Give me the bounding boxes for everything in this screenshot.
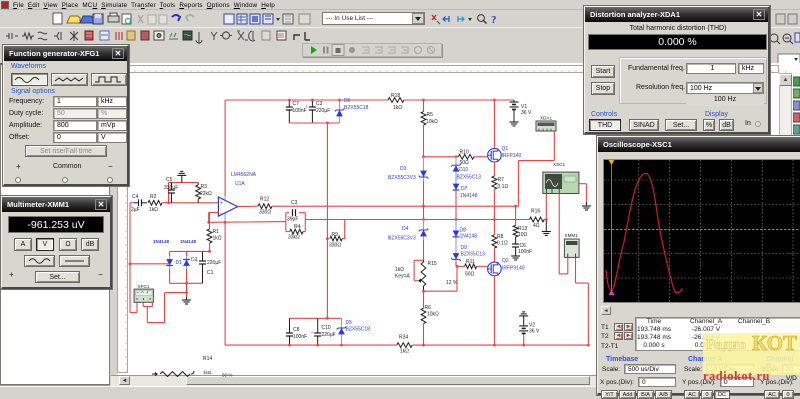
- svg-text:36 V: 36 V: [521, 110, 532, 116]
- svg-text:1kΩ: 1kΩ: [149, 207, 158, 213]
- svg-text:R10: R10: [460, 150, 469, 156]
- svg-text:C7: C7: [293, 101, 300, 107]
- svg-text:R6: R6: [425, 305, 432, 311]
- svg-text:+: +: [305, 104, 308, 109]
- resistor R4: [288, 224, 303, 241]
- svg-text:R15: R15: [428, 261, 437, 267]
- svg-text:U1A: U1A: [235, 181, 245, 187]
- battery V2: [519, 323, 540, 347]
- simulation toolbar: [302, 43, 442, 57]
- svg-text:100nF: 100nF: [518, 249, 532, 255]
- resistor R5: [421, 99, 438, 125]
- resistor R11: [457, 259, 488, 278]
- zener diode D10: [451, 155, 481, 180]
- svg-text:C10: C10: [322, 325, 331, 331]
- capacitor C6: [512, 237, 532, 255]
- svg-text:0.1Ω: 0.1Ω: [497, 241, 508, 247]
- wire R5 to gate line: [422, 125, 425, 158]
- svg-text:100nF: 100nF: [293, 334, 307, 340]
- svg-text:2µF: 2µF: [131, 207, 140, 213]
- svg-text:0.1Ω: 0.1Ω: [498, 184, 509, 190]
- wire op-amp V+ supply: [224, 100, 226, 196]
- svg-text:330Ω: 330Ω: [329, 243, 341, 249]
- wire D1/D2 box bottom rail: [170, 282, 203, 285]
- wire decoupling group bottom rail: [289, 122, 339, 125]
- svg-text:22kΩ: 22kΩ: [200, 191, 212, 197]
- wire D7 down to line B: [455, 191, 458, 221]
- svg-text:1kΩ: 1kΩ: [203, 370, 212, 375]
- svg-text:IRFP9140: IRFP9140: [502, 266, 525, 272]
- resistor R7: [492, 162, 508, 190]
- toolbar row 1: [0, 11, 800, 27]
- menu bar: [0, 0, 800, 10]
- wire op-amp output: [238, 205, 258, 207]
- svg-text:C8: C8: [293, 327, 300, 333]
- wire feedback box sides: [286, 213, 306, 232]
- capacitor C1: [196, 251, 222, 283]
- svg-text:D10: D10: [459, 167, 468, 173]
- zener diode D6: [335, 98, 369, 123]
- svg-text:1N4148: 1N4148: [153, 239, 170, 244]
- right vertical scrollbar: [779, 73, 792, 136]
- wire negative bottom rail: [225, 344, 397, 347]
- wire line A to distortion analyzer: [518, 131, 554, 206]
- svg-text:Q2: Q2: [502, 258, 509, 264]
- svg-text:C1: C1: [207, 270, 214, 276]
- svg-text:R12: R12: [260, 197, 269, 203]
- svg-text:LM4562NA: LM4562NA: [231, 172, 257, 178]
- svg-text:XSC1: XSC1: [553, 162, 565, 167]
- instrument XFG1: [134, 284, 153, 302]
- svg-text:C4: C4: [132, 194, 139, 200]
- svg-text:XMM1: XMM1: [565, 233, 579, 238]
- status bar: [0, 386, 800, 395]
- svg-text:33kΩ: 33kΩ: [288, 235, 300, 241]
- wire bottom rail right segment: [412, 344, 588, 346]
- wire oscilloscope probe B: [559, 194, 568, 274]
- Distortion analyzer XDA1 dialog: [584, 6, 770, 134]
- wire main vertical to output caps: [326, 239, 328, 319]
- wire left signal rail: [130, 203, 137, 313]
- svg-text:D9: D9: [461, 245, 468, 251]
- svg-text:330µF: 330µF: [164, 185, 178, 191]
- resistor R16: [530, 209, 545, 230]
- svg-text:R7: R7: [498, 177, 505, 183]
- design toolbox panel: [0, 63, 110, 385]
- svg-text:D6: D6: [344, 98, 351, 104]
- wire input node from generator rail: [130, 202, 134, 204]
- potentiometer R14: [152, 356, 232, 378]
- wire R13 branch from line A: [514, 205, 517, 226]
- svg-text:1N4148: 1N4148: [180, 239, 197, 244]
- instrument XDA1: [536, 116, 556, 132]
- resistor R34: [397, 335, 412, 355]
- svg-text:1kΩ: 1kΩ: [395, 267, 404, 273]
- wire R16 to ground: [544, 219, 546, 221]
- Oscilloscope XSC1 dialog: [597, 136, 800, 395]
- wire Q2 drain to bottom rail: [493, 276, 496, 347]
- top-right fragments: [768, 28, 800, 68]
- wire R9 up to line B: [342, 220, 345, 239]
- svg-text:R5: R5: [427, 112, 434, 118]
- ground at oscilloscope: [582, 202, 591, 210]
- svg-text:BZX55C18: BZX55C18: [346, 327, 371, 333]
- ground below C6: [511, 253, 520, 260]
- wire feedback line B: [209, 220, 530, 223]
- canvas white: [111, 63, 800, 376]
- left sheet border strip: [111, 63, 117, 376]
- resistor R8: [492, 220, 508, 249]
- wire top positive rail left segment: [225, 99, 388, 101]
- wire shunt top node: [169, 182, 199, 202]
- ground above V2: [519, 312, 528, 324]
- svg-text:10kΩ: 10kΩ: [426, 119, 438, 125]
- ground at limiter: [182, 283, 191, 304]
- radiokot watermark: [703, 333, 800, 375]
- svg-text:R18: R18: [391, 93, 400, 99]
- resistor R2: [148, 194, 162, 213]
- svg-text:R11: R11: [466, 259, 475, 265]
- resistor R13: [513, 225, 527, 238]
- wire multimeter to bottom rail: [576, 257, 590, 346]
- potentiometer R15: [395, 260, 458, 291]
- battery V1: [510, 100, 532, 118]
- capacitor C3 (supply decoupling): [305, 99, 330, 123]
- svg-text:XDA1: XDA1: [540, 116, 552, 121]
- svg-text:D1: D1: [176, 260, 183, 266]
- wire main vertical from decoupling group: [326, 123, 328, 239]
- svg-text:-: -: [220, 210, 222, 216]
- resistor R9: [326, 232, 342, 249]
- horizontal scrollbar: [111, 375, 800, 386]
- wire XFG1 common loop: [143, 302, 152, 306]
- svg-text:R8: R8: [497, 234, 504, 240]
- svg-text:50Ω: 50Ω: [465, 272, 475, 278]
- svg-text:220µF: 220µF: [322, 332, 336, 338]
- svg-text:1N4148: 1N4148: [460, 193, 478, 199]
- diode D1: [153, 239, 182, 283]
- svg-text:50Ω: 50Ω: [460, 160, 470, 166]
- svg-text:C5: C5: [166, 177, 173, 183]
- svg-text:10Ω: 10Ω: [518, 232, 528, 238]
- zener diode D4: [388, 220, 428, 261]
- svg-text:C3: C3: [291, 200, 298, 206]
- svg-text:D3: D3: [400, 166, 407, 172]
- wire minus input to feedback: [207, 212, 218, 223]
- svg-text:D4: D4: [402, 226, 409, 232]
- svg-text:36 V: 36 V: [529, 329, 540, 335]
- resistor R18: [388, 93, 404, 111]
- Function generator XFG1 dialog: [3, 45, 129, 186]
- capacitor C10: [311, 318, 336, 345]
- svg-text:R34: R34: [399, 335, 408, 341]
- svg-text:330Ω: 330Ω: [259, 210, 271, 216]
- svg-text:R4: R4: [294, 224, 301, 230]
- svg-text:BZX55C18: BZX55C18: [344, 105, 369, 111]
- wire top positive rail right segment: [404, 99, 514, 101]
- capacitor C3 39pF feedback: [286, 209, 306, 222]
- capacitor C7: [286, 99, 307, 123]
- svg-text:1kΩ: 1kΩ: [213, 236, 222, 242]
- svg-text:39pF: 39pF: [287, 217, 298, 223]
- resistor R3: [196, 182, 212, 202]
- zener diode D5: [337, 318, 370, 345]
- svg-text:10kΩ: 10kΩ: [427, 312, 439, 318]
- toolbar row 2: [0, 27, 800, 45]
- svg-text:12 %: 12 %: [446, 280, 458, 286]
- wire oscilloscope probe A: [545, 194, 548, 221]
- svg-text:R16: R16: [531, 209, 540, 215]
- instrument XMM1: [564, 233, 579, 258]
- svg-text:+: +: [220, 200, 223, 206]
- svg-text:C3: C3: [316, 101, 323, 107]
- top sheet border strip: [117, 65, 779, 73]
- instrument XSC1: [543, 162, 579, 194]
- svg-text:+: +: [311, 330, 314, 335]
- diode D8: [453, 220, 478, 240]
- resistor R12: [258, 197, 272, 216]
- svg-text:220µF: 220µF: [207, 260, 221, 266]
- svg-text:1kΩ: 1kΩ: [393, 105, 402, 111]
- ground below V1: [510, 118, 519, 126]
- svg-text:1kΩ: 1kΩ: [400, 349, 409, 355]
- ground at R16: [542, 220, 551, 236]
- capacitor C4: [131, 194, 147, 213]
- transistor Q2 IRFP9140: [488, 248, 525, 276]
- transistor Q1 IRFP140: [488, 99, 522, 162]
- svg-text:1N4148: 1N4148: [460, 234, 478, 240]
- wire D1/D2 box top rail: [170, 250, 211, 253]
- resistor R1: [207, 212, 222, 251]
- svg-text:50 %: 50 %: [222, 373, 232, 378]
- right docked toolbar icons: [793, 76, 800, 143]
- svg-text:BZX55C3V3: BZX55C3V3: [388, 175, 416, 181]
- capacitor C5: [164, 177, 178, 203]
- svg-text:Q1: Q1: [502, 146, 509, 152]
- wire limiter to input rail: [129, 262, 170, 265]
- svg-text:R1: R1: [213, 229, 220, 235]
- wire R2 to op-amp plus input: [162, 201, 218, 204]
- Multimeter XMM1 dialog: [1, 196, 112, 289]
- svg-text:BZX55C3V3: BZX55C3V3: [388, 236, 416, 242]
- capacitor C8: [286, 318, 307, 345]
- svg-text:D5: D5: [346, 320, 353, 326]
- diode D2: [180, 239, 198, 283]
- wire oscilloscope ground pin: [579, 184, 587, 202]
- wire R7 to line B: [493, 189, 496, 221]
- svg-text:4Ω: 4Ω: [533, 223, 540, 229]
- svg-text:D7: D7: [461, 186, 468, 192]
- wire XFG1 to ground: [147, 291, 188, 322]
- wire output line A: [272, 200, 518, 206]
- wire pot bottom to R11 branch: [422, 266, 457, 292]
- svg-text:220µF: 220µF: [316, 108, 330, 114]
- wire Q1 gate line: [424, 156, 488, 158]
- resistor R10: [458, 150, 474, 167]
- ground above C5/R3: [177, 171, 186, 182]
- svg-text:XFG1: XFG1: [138, 284, 150, 289]
- resistor R6: [421, 291, 439, 346]
- In Use List combo: [322, 12, 425, 25]
- svg-text:BZX55C13: BZX55C13: [461, 252, 486, 258]
- svg-text:BZX55C13: BZX55C13: [457, 175, 482, 181]
- zener diode D9: [451, 240, 485, 261]
- svg-text:+: +: [196, 258, 199, 263]
- wire output group top rail: [290, 317, 342, 320]
- diode D7: [453, 173, 478, 200]
- svg-text:R3: R3: [201, 184, 208, 190]
- svg-text:IRFP140: IRFP140: [502, 153, 522, 159]
- wire D3 through line A to line B: [422, 205, 425, 221]
- svg-text:R14: R14: [203, 356, 212, 362]
- op-amp U1A LM4562NA: [218, 172, 256, 221]
- svg-text:Key=A: Key=A: [395, 274, 411, 280]
- wire D9 to R11 node: [456, 261, 459, 268]
- svg-text:R9: R9: [332, 232, 339, 238]
- zener diode D3: [388, 157, 428, 206]
- wire op-amp V- down to negative rail: [224, 221, 227, 345]
- svg-text:R2: R2: [150, 194, 157, 200]
